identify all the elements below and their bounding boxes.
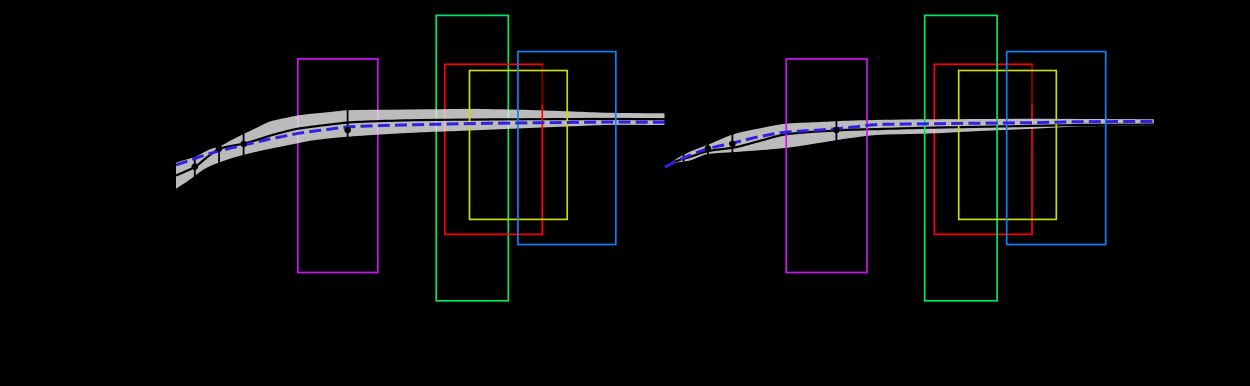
right red rect right edge dark segment — [1031, 66, 1033, 105]
left data points — [192, 163, 199, 170]
left red rect — [445, 64, 543, 234]
left blue dashed curve — [176, 122, 665, 165]
left blue rect — [518, 52, 616, 245]
left red rect right edge (bright overlay) — [541, 105, 543, 235]
right data points — [680, 163, 687, 170]
left yellow rect — [470, 71, 568, 220]
right red rect — [934, 64, 1032, 234]
right blue rect — [1007, 52, 1106, 245]
left gray uncertainty band — [176, 109, 665, 189]
left magenta rect — [298, 59, 378, 273]
right magenta rect — [786, 59, 867, 273]
right blue dashed curve — [665, 122, 1154, 168]
left green rect — [436, 15, 508, 300]
right gray uncertainty band — [665, 119, 1154, 165]
right green rect — [925, 15, 997, 300]
right error bars — [684, 106, 837, 181]
left black best-fit curve — [176, 119, 665, 176]
left error bars — [195, 106, 348, 181]
right black best-fit curve — [665, 125, 1154, 166]
left red rect right edge dark segment — [541, 66, 543, 105]
right yellow rect — [959, 71, 1057, 220]
